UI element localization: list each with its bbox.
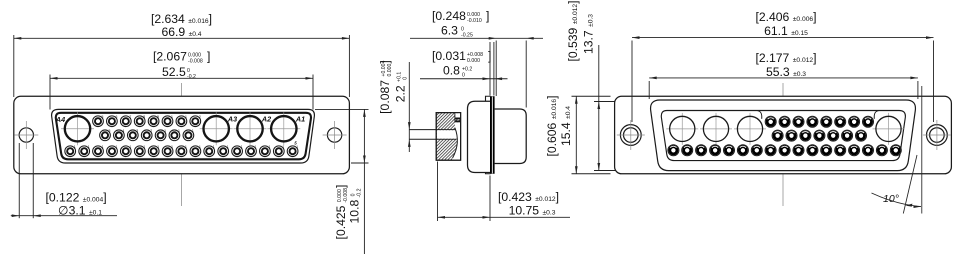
svg-text:1: 1	[185, 145, 187, 149]
contact A3 (rear)	[734, 113, 766, 145]
side view shell profile	[468, 101, 491, 172]
dimension 61.1 line	[632, 37, 934, 39]
svg-text:]: ]	[488, 49, 491, 63]
dimension 55.3 extension lines	[648, 81, 650, 99]
svg-text:A2: A2	[261, 115, 271, 124]
dimension 66.9 extension lines	[13, 35, 15, 97]
10 degree arc	[872, 193, 922, 207]
side view contact cavity	[452, 122, 460, 159]
svg-text:1: 1	[178, 129, 180, 133]
dimension [0.425] rotated text	[334, 185, 349, 240]
dimension 10.8 extension lines	[315, 108, 369, 110]
svg-text:-0.2: -0.2	[187, 74, 196, 80]
side view flange lip bottom	[486, 173, 491, 174]
dimension 2.2 rotated text	[394, 72, 409, 103]
dimension 15.4 extension lines	[572, 95, 611, 97]
rear mounting hole left	[617, 120, 645, 150]
rear bottom row pins	[668, 145, 679, 156]
svg-text:1: 1	[213, 145, 215, 149]
side view contact pin top edge	[410, 129, 457, 131]
svg-text:6.3: 6.3	[441, 24, 458, 38]
rear view flange	[615, 96, 952, 174]
svg-text:0.8: 0.8	[443, 64, 460, 78]
dimension 10.8 line	[363, 109, 365, 254]
dimension 15.4 line	[575, 96, 577, 174]
svg-text:[0.248: [0.248	[432, 9, 466, 23]
contact A4 (rear)	[873, 113, 905, 145]
dimension 0.8 line	[420, 78, 508, 80]
front insert outline	[56, 113, 311, 160]
mounting hole dia leader	[11, 215, 117, 217]
dimension 10.8 rotated text	[348, 188, 363, 223]
svg-text:1: 1	[88, 145, 90, 149]
rear mounting hole right	[923, 120, 951, 150]
svg-text:10°: 10°	[883, 193, 899, 205]
rear middle row pins	[772, 130, 783, 141]
front middle row pins	[100, 130, 111, 141]
svg-text:1: 1	[116, 145, 118, 149]
svg-text:-0.008: -0.008	[188, 59, 203, 65]
svg-text:[0.031: [0.031	[432, 49, 466, 63]
contact A1 (rear)	[666, 113, 698, 145]
mounting hole dia extension lines	[18, 143, 20, 218]
front view centerline	[181, 83, 183, 206]
svg-text:1: 1	[171, 115, 173, 119]
svg-text:1: 1	[241, 145, 243, 149]
rear pin field boundary hooks	[874, 111, 878, 119]
side view contact pin bottom edge	[410, 138, 457, 140]
dimension 55.3 line	[649, 77, 918, 79]
front mounting hole left	[14, 121, 38, 149]
contact A2 (front)	[234, 112, 267, 145]
side view flange lip top	[486, 96, 491, 101]
dimension 52.5 line	[50, 77, 313, 79]
dimension 13.7 extension lines	[594, 101, 648, 103]
dimension 0.8 extension lines	[489, 42, 491, 96]
svg-text:1: 1	[171, 145, 173, 149]
svg-text:1: 1	[268, 145, 270, 149]
svg-text:0.000: 0.000	[467, 58, 480, 64]
svg-text:1: 1	[296, 145, 298, 149]
10 degree reference vertical line	[921, 86, 923, 214]
svg-text:1: 1	[102, 145, 104, 149]
svg-text:1: 1	[129, 145, 131, 149]
side view slot	[455, 113, 461, 117]
side view insulator block border	[436, 113, 460, 161]
svg-text:1: 1	[199, 145, 201, 149]
svg-text:1: 1	[255, 145, 257, 149]
dimension 10.75 extension lines	[437, 162, 439, 222]
svg-text:7: 7	[129, 115, 131, 119]
svg-text:2: 2	[150, 129, 152, 133]
side view pin channel	[437, 130, 457, 138]
dimension [0.539 +-0.012] rotated text	[566, 0, 580, 61]
front mounting hole right	[323, 121, 347, 149]
svg-text:6: 6	[115, 115, 117, 119]
svg-text:3: 3	[136, 129, 138, 133]
contact A3 (front)	[200, 112, 233, 145]
svg-text:]: ]	[486, 9, 489, 23]
side view rear body	[495, 109, 527, 164]
dimension 52.5 extension lines	[49, 75, 51, 110]
svg-text:52.5: 52.5	[162, 65, 186, 79]
dimension 10.75 line	[438, 216, 571, 218]
side view insulator block	[436, 113, 460, 161]
dimension 6.3 line	[410, 37, 543, 39]
rear grommet outline	[651, 100, 916, 171]
rear insert outline	[661, 111, 905, 161]
front top row pins	[93, 116, 104, 127]
svg-text:9: 9	[157, 115, 159, 119]
svg-text:8: 8	[143, 115, 145, 119]
svg-text:5: 5	[102, 115, 104, 119]
svg-text:1: 1	[282, 145, 284, 149]
svg-text:A4: A4	[55, 115, 65, 124]
svg-text:A1: A1	[295, 115, 305, 124]
contact A4 (front)	[61, 112, 94, 145]
svg-text:4: 4	[122, 129, 124, 133]
dimension 15.4 rotated text	[559, 106, 573, 146]
dimension 6.3 extension lines	[495, 41, 497, 97]
rear view centerline	[782, 83, 784, 206]
svg-text:1: 1	[157, 145, 159, 149]
front bottom row pins	[65, 146, 76, 157]
svg-text:1: 1	[227, 145, 229, 149]
svg-text:10.8 0-0.2: 10.8 0-0.2	[348, 188, 363, 223]
dimension [0.606 +-0.016] rotated text	[545, 95, 559, 156]
contact A1 (front)	[267, 112, 300, 145]
dimension 2.2 line	[408, 62, 410, 152]
rear top row pins	[765, 116, 776, 127]
front shell outline	[52, 109, 315, 163]
dimension 66.9 line	[14, 37, 350, 39]
side view retention clip	[455, 118, 460, 120]
svg-text:1: 1	[74, 145, 76, 149]
svg-text:]: ]	[207, 50, 210, 64]
svg-text:-0.010: -0.010	[467, 18, 482, 24]
contact A2 (rear)	[700, 113, 732, 145]
svg-text:1: 1	[192, 129, 194, 133]
svg-text:0: 0	[462, 73, 465, 79]
svg-text:2: 2	[199, 115, 201, 119]
dimension [0.087] rotated text	[378, 60, 393, 114]
svg-text:5: 5	[109, 129, 111, 133]
svg-text:-0.25: -0.25	[461, 33, 473, 39]
svg-text:A3: A3	[227, 115, 237, 124]
dimension 13.7 line	[598, 45, 600, 171]
svg-text:1: 1	[185, 115, 187, 119]
svg-text:1: 1	[164, 129, 166, 133]
dimension 61.1 extension lines	[631, 41, 633, 123]
10 degree slant line	[903, 155, 917, 214]
front view flange	[14, 96, 350, 174]
dimension 13.7 rotated text	[582, 14, 596, 54]
svg-text:1: 1	[143, 145, 145, 149]
svg-text:[0.087 +0.0040.000]: [0.087 +0.0040.000]	[378, 60, 393, 114]
side view flange plate	[490, 96, 495, 174]
svg-text:[2.067: [2.067	[153, 50, 187, 64]
